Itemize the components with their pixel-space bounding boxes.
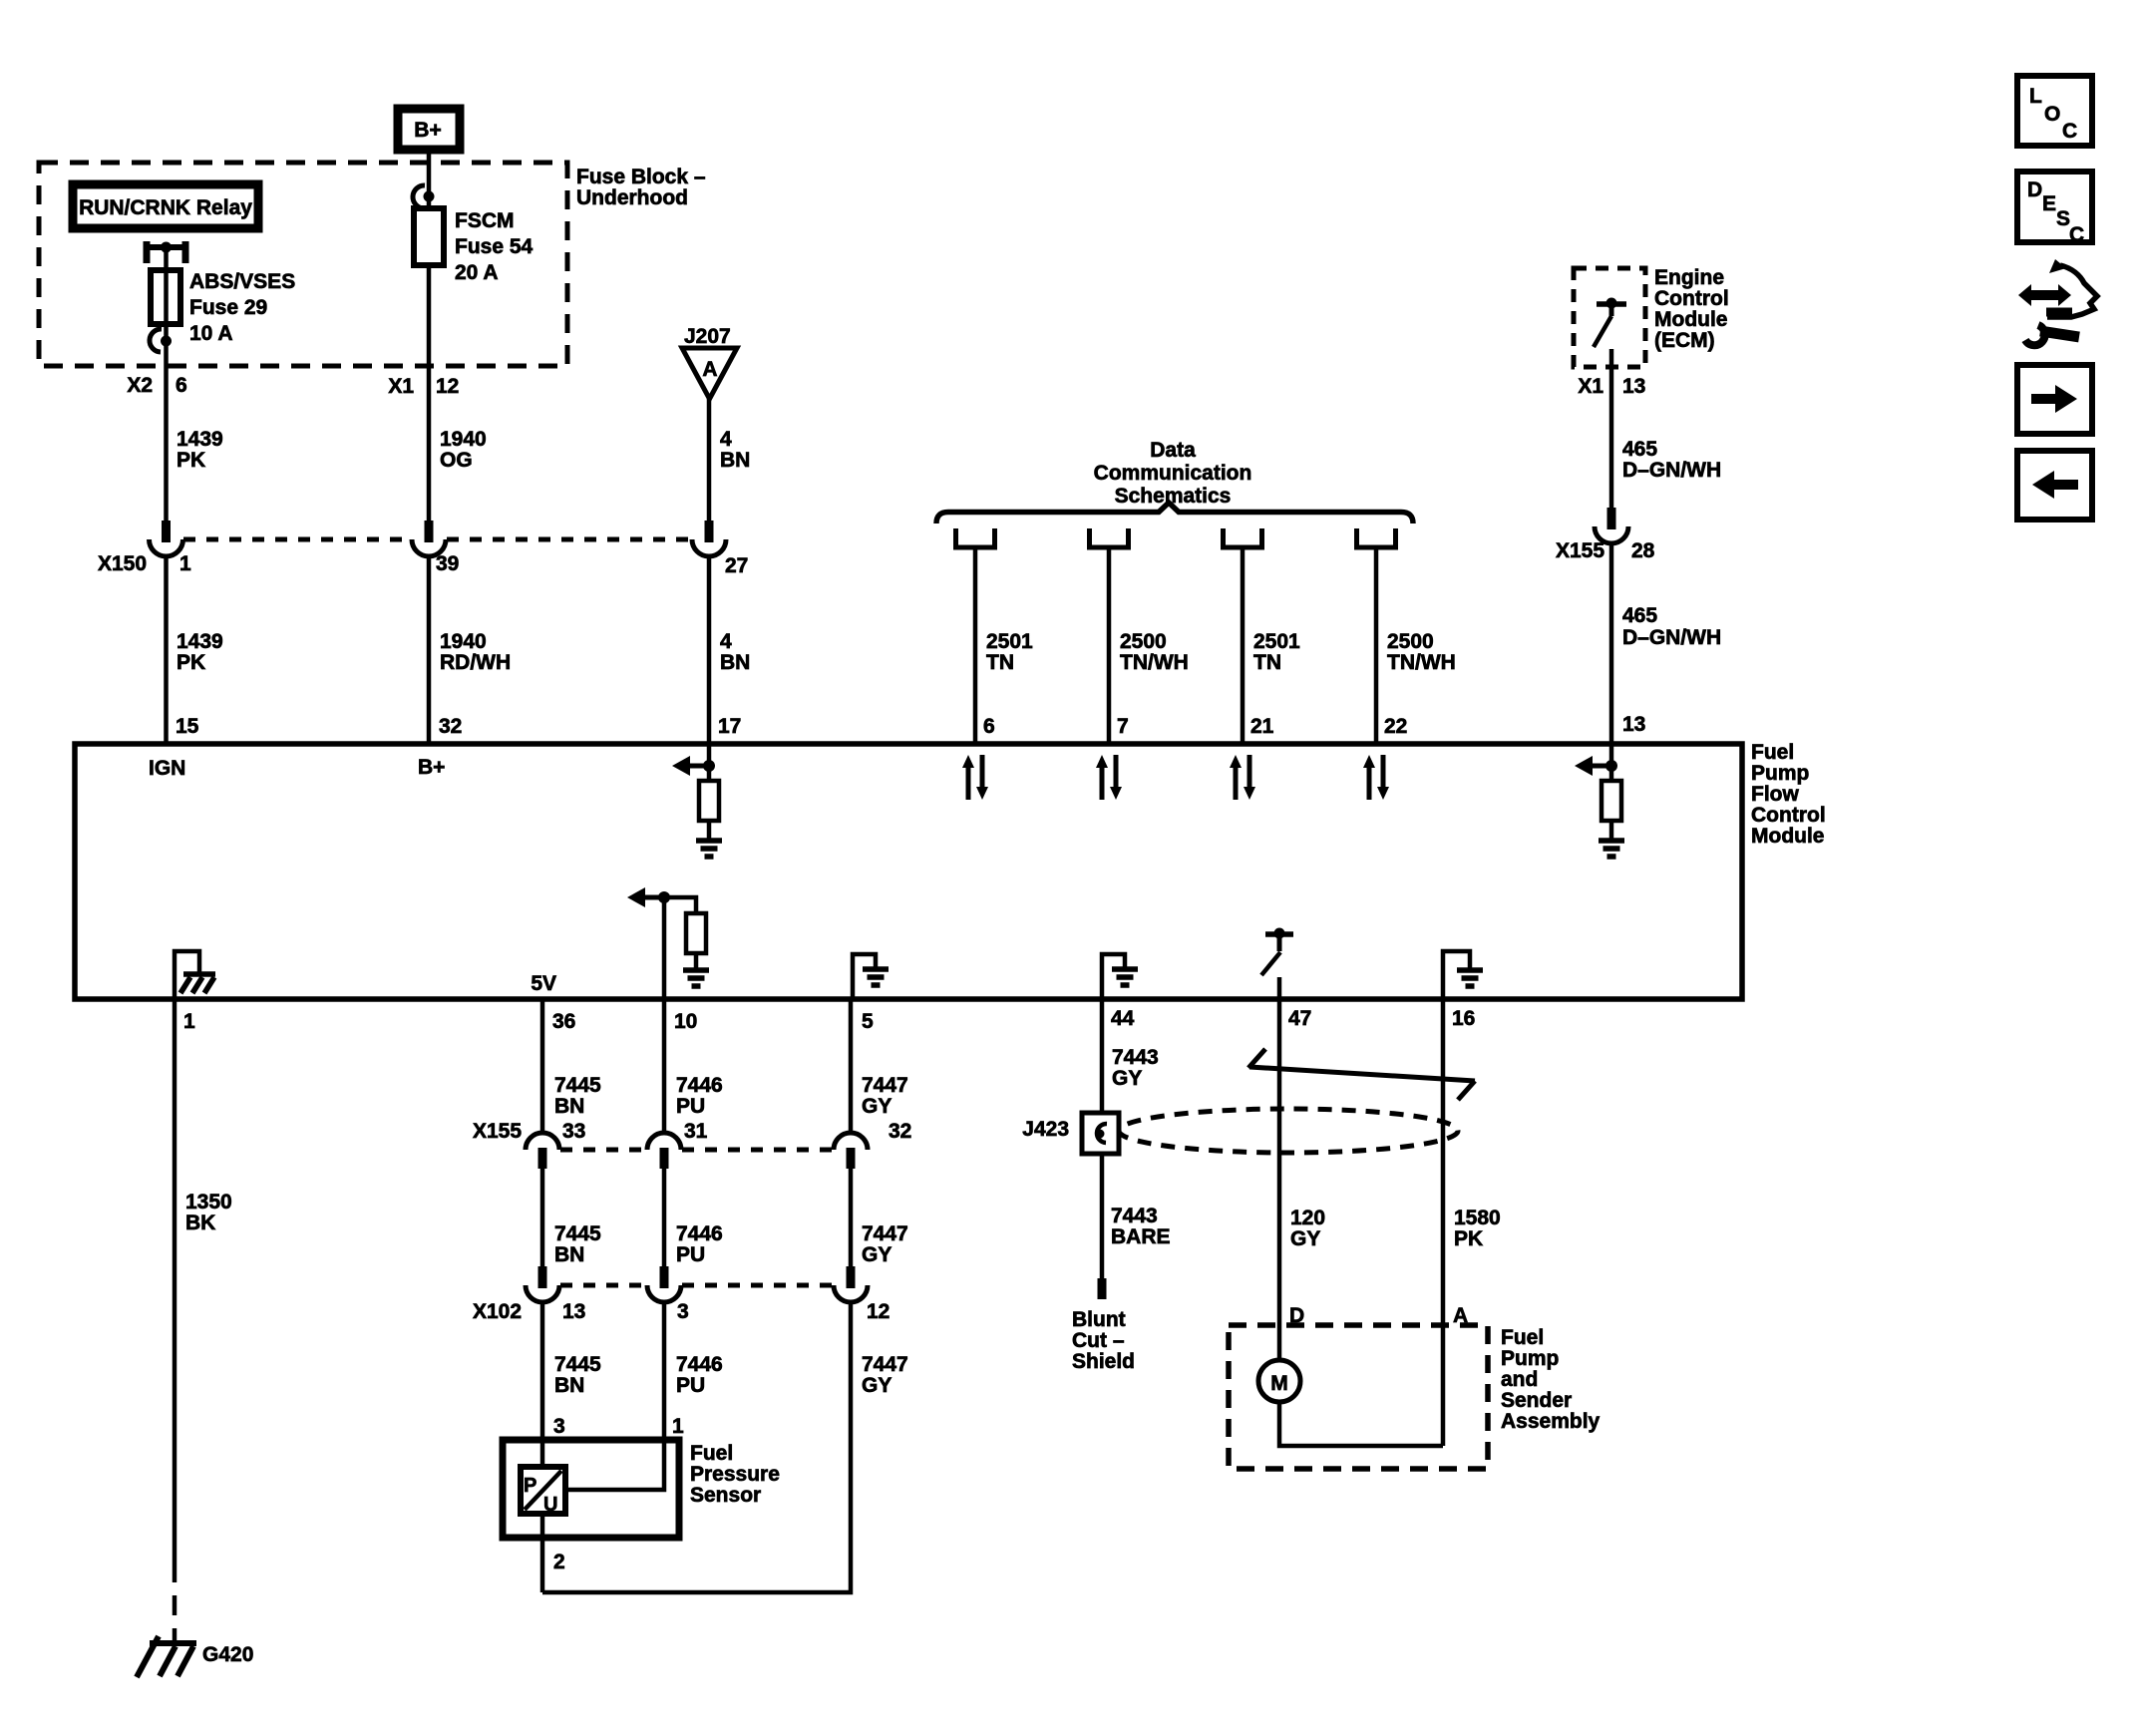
svg-text:7445: 7445 bbox=[554, 1353, 601, 1376]
svg-text:PU: PU bbox=[676, 1243, 705, 1266]
wire relay through fuse 29 to X150 bbox=[164, 247, 169, 522]
svg-text:RD/WH: RD/WH bbox=[440, 651, 511, 674]
svg-text:7: 7 bbox=[1117, 715, 1129, 738]
ECM dashed box bbox=[1574, 268, 1645, 367]
svg-text:Flow: Flow bbox=[1751, 783, 1799, 806]
wire pin 1 to G420 (1350 BK) bbox=[173, 999, 178, 1643]
svg-text:GY: GY bbox=[1290, 1227, 1320, 1250]
label ABS/VSES Fuse 29 10 A bbox=[189, 270, 295, 345]
wire from B+ down to fuse 54 bbox=[427, 154, 432, 208]
label 7447 GY (lower) bbox=[862, 1353, 908, 1397]
svg-text:P: P bbox=[524, 1475, 536, 1497]
svg-text:C: C bbox=[2062, 120, 2077, 143]
svg-text:Control: Control bbox=[1751, 804, 1826, 827]
wire X155-32 to X102-12 (7447 GY) bbox=[849, 1169, 854, 1270]
Fuse Block - Underhood dashed box bbox=[39, 163, 567, 366]
icon back arrow button bbox=[2017, 451, 2092, 520]
label 1439 PK (above X150) bbox=[177, 428, 223, 472]
wire motor to sender return bbox=[1279, 1402, 1443, 1446]
label 7446 PU (upper) bbox=[676, 1074, 723, 1118]
data wire 2501 TN pin 21 bbox=[1221, 528, 1300, 744]
label 1439 PK (below X150) bbox=[177, 630, 223, 674]
Fuel Pump Flow Control Module box bbox=[75, 744, 1742, 999]
data wire 2500 TN/WH pin 7 bbox=[1087, 528, 1189, 744]
svg-text:Fuse 29: Fuse 29 bbox=[189, 296, 267, 319]
svg-text:M: M bbox=[1270, 1372, 1288, 1395]
svg-text:D–GN/WH: D–GN/WH bbox=[1622, 626, 1721, 649]
svg-text:1940: 1940 bbox=[440, 630, 487, 653]
twisted-leads arrow bbox=[1248, 1049, 1475, 1100]
connector X155 cavity 32 bbox=[834, 1133, 868, 1169]
label 7447 GY (middle) bbox=[862, 1222, 908, 1266]
label X1 12 bbox=[388, 375, 459, 398]
internal pull-up resistor and ground at pin 13 bbox=[1575, 744, 1624, 857]
svg-text:44: 44 bbox=[1111, 1007, 1135, 1030]
label X1 13 (ECM) bbox=[1578, 375, 1645, 398]
svg-text:X2: X2 bbox=[127, 374, 153, 397]
svg-text:(ECM): (ECM) bbox=[1654, 329, 1715, 352]
svg-text:2501: 2501 bbox=[986, 630, 1033, 653]
wire J423 to blunt cut (7443 BARE) bbox=[1100, 1154, 1105, 1280]
label Fuel Pump Flow Control Module bbox=[1751, 741, 1826, 848]
label Fuel Pressure Sensor bbox=[690, 1442, 780, 1507]
svg-text:13: 13 bbox=[1622, 375, 1645, 398]
svg-text:120: 120 bbox=[1290, 1207, 1325, 1229]
connector X102 cavity 13 bbox=[526, 1266, 559, 1302]
svg-text:4: 4 bbox=[720, 428, 732, 451]
connector X155 cavity 31 bbox=[647, 1133, 681, 1169]
wire J207 to X150-27 (4 BN) bbox=[707, 399, 712, 522]
ground G420 chassis symbol bbox=[137, 1636, 196, 1677]
svg-text:PK: PK bbox=[177, 449, 205, 472]
internal data transceiver arrows pin 7 bbox=[1096, 755, 1122, 800]
fuel pump motor M bbox=[1258, 1360, 1300, 1402]
svg-text:1350: 1350 bbox=[185, 1191, 232, 1214]
svg-text:TN: TN bbox=[1253, 651, 1281, 674]
svg-text:36: 36 bbox=[552, 1010, 575, 1033]
svg-text:10: 10 bbox=[674, 1010, 697, 1033]
wire pin 36 to X155-33 (7445 BN) bbox=[540, 999, 545, 1134]
label 7446 PU (middle) bbox=[676, 1222, 723, 1266]
label Fuse Block - Underhood bbox=[576, 166, 706, 209]
svg-text:PU: PU bbox=[676, 1095, 705, 1118]
svg-text:1439: 1439 bbox=[177, 630, 223, 653]
label FSCM Fuse 54 20 A bbox=[455, 209, 534, 284]
svg-text:15: 15 bbox=[176, 715, 199, 738]
label 1940 OG bbox=[440, 428, 487, 472]
svg-text:BN: BN bbox=[720, 651, 750, 674]
svg-text:X102: X102 bbox=[473, 1300, 522, 1323]
svg-text:TN/WH: TN/WH bbox=[1120, 651, 1189, 674]
svg-text:Module: Module bbox=[1654, 308, 1728, 331]
Fuel Pump and Sender Assembly dashed box bbox=[1229, 1325, 1488, 1469]
label 4 BN (below X150) bbox=[720, 630, 750, 674]
svg-text:GY: GY bbox=[862, 1095, 891, 1118]
wire X150-27 to module pin 17 (4 BN) bbox=[707, 555, 712, 744]
icon forward arrow button bbox=[2017, 365, 2092, 434]
svg-text:X1: X1 bbox=[1578, 375, 1603, 398]
icon repair-info hand with double arrow and wrench bbox=[2018, 259, 2097, 345]
label 1940 RD/WH bbox=[440, 630, 511, 674]
blunt cut shield stub bbox=[1098, 1278, 1107, 1299]
internal 5V reference resistor to ground at pin 10 bbox=[627, 887, 709, 997]
data bus brace bbox=[936, 503, 1413, 523]
svg-text:PK: PK bbox=[177, 651, 205, 674]
svg-text:BN: BN bbox=[720, 449, 750, 472]
svg-text:12: 12 bbox=[436, 375, 459, 398]
svg-text:465: 465 bbox=[1622, 438, 1657, 461]
svg-text:Fuel: Fuel bbox=[1501, 1326, 1544, 1349]
svg-text:Sender: Sender bbox=[1501, 1389, 1572, 1412]
relay output terminal with junction bbox=[144, 241, 188, 263]
svg-text:1: 1 bbox=[672, 1415, 684, 1438]
svg-text:28: 28 bbox=[1631, 539, 1655, 562]
fuse F29 (ABS/VSES 10 A) bbox=[151, 270, 180, 324]
label 7445 BN (middle) bbox=[554, 1222, 601, 1266]
svg-text:32: 32 bbox=[439, 715, 462, 738]
svg-text:and: and bbox=[1501, 1368, 1538, 1391]
label X155 28 bbox=[1556, 539, 1655, 562]
svg-text:27: 27 bbox=[725, 554, 748, 577]
connector X150 cavity 27 bbox=[692, 521, 726, 556]
svg-text:B+: B+ bbox=[418, 756, 445, 779]
svg-text:12: 12 bbox=[867, 1300, 890, 1323]
svg-text:Sensor: Sensor bbox=[690, 1484, 761, 1507]
svg-text:G420: G420 bbox=[202, 1643, 253, 1666]
svg-text:10 A: 10 A bbox=[189, 322, 233, 345]
connector X150 cavity 1 bbox=[150, 521, 183, 556]
svg-text:5V: 5V bbox=[531, 972, 556, 995]
wire X150-1 to module pin 15 (1439 PK) bbox=[164, 555, 169, 744]
svg-text:7446: 7446 bbox=[676, 1353, 723, 1376]
svg-text:GY: GY bbox=[1112, 1067, 1142, 1090]
internal chassis ground at pin 1 bbox=[175, 951, 215, 997]
svg-text:GY: GY bbox=[862, 1374, 891, 1397]
svg-text:7446: 7446 bbox=[676, 1074, 723, 1097]
svg-text:Underhood: Underhood bbox=[576, 186, 688, 209]
svg-text:7445: 7445 bbox=[554, 1222, 601, 1245]
internal ground at pin 16 bbox=[1443, 951, 1483, 997]
svg-text:17: 17 bbox=[718, 715, 741, 738]
svg-text:U: U bbox=[543, 1494, 557, 1516]
wire X155-33 to X102-13 (7445 BN) bbox=[540, 1169, 545, 1270]
terminal hook above fuse 54 bbox=[413, 185, 435, 208]
svg-text:5: 5 bbox=[862, 1010, 874, 1033]
svg-text:TN: TN bbox=[986, 651, 1014, 674]
svg-text:GY: GY bbox=[862, 1243, 891, 1266]
svg-text:D–GN/WH: D–GN/WH bbox=[1622, 459, 1721, 482]
internal pull-up resistor and ground at pin 17 bbox=[672, 744, 722, 857]
wire X155-31 to X102-3 (7446 PU) bbox=[662, 1169, 667, 1270]
svg-text:BN: BN bbox=[554, 1374, 584, 1397]
svg-text:X155: X155 bbox=[473, 1120, 522, 1143]
svg-text:7447: 7447 bbox=[862, 1222, 908, 1245]
label 7446 PU (lower) bbox=[676, 1353, 723, 1397]
label Engine Control Module (ECM) bbox=[1654, 266, 1729, 352]
label 465 D-GN/WH (upper) bbox=[1622, 438, 1721, 482]
svg-text:7443: 7443 bbox=[1111, 1205, 1158, 1227]
svg-text:47: 47 bbox=[1288, 1007, 1311, 1030]
svg-text:20 A: 20 A bbox=[455, 261, 499, 284]
label Fuel Pump and Sender Assembly bbox=[1501, 1326, 1601, 1433]
internal data transceiver arrows pin 22 bbox=[1363, 755, 1389, 800]
svg-text:BK: BK bbox=[185, 1212, 215, 1234]
svg-text:7447: 7447 bbox=[862, 1353, 908, 1376]
svg-text:Shield: Shield bbox=[1072, 1350, 1135, 1373]
Fuel Pressure Sensor box bbox=[503, 1440, 679, 1538]
svg-text:S: S bbox=[2056, 207, 2070, 230]
svg-text:L: L bbox=[2029, 85, 2042, 108]
svg-text:Blunt: Blunt bbox=[1072, 1308, 1126, 1331]
svg-text:13: 13 bbox=[1622, 713, 1645, 736]
svg-text:PK: PK bbox=[1454, 1227, 1483, 1250]
svg-text:J423: J423 bbox=[1022, 1118, 1069, 1141]
svg-text:7445: 7445 bbox=[554, 1074, 601, 1097]
wire pin 5 to X155-32 (7447 GY) bbox=[849, 999, 854, 1134]
svg-text:2501: 2501 bbox=[1253, 630, 1300, 653]
label 7447 GY (upper) bbox=[862, 1074, 908, 1118]
svg-text:465: 465 bbox=[1622, 604, 1657, 627]
label 7443 GY bbox=[1112, 1046, 1159, 1090]
svg-text:7443: 7443 bbox=[1112, 1046, 1159, 1069]
label 465 D-GN/WH (lower) bbox=[1622, 604, 1721, 649]
X102 dashed inline-connector line bbox=[560, 1283, 833, 1288]
wire sensor pin 2 bbox=[540, 1514, 545, 1592]
wire X102-3 to sensor pin 1 (7446 PU) bbox=[565, 1301, 664, 1490]
svg-text:6: 6 bbox=[176, 374, 187, 397]
svg-text:3: 3 bbox=[677, 1300, 689, 1323]
label 120 GY bbox=[1290, 1207, 1325, 1250]
svg-text:C: C bbox=[2069, 223, 2084, 246]
svg-text:1: 1 bbox=[179, 552, 191, 575]
connector X155 cavity 33 bbox=[526, 1133, 559, 1169]
label X150 1 bbox=[98, 552, 191, 575]
label 7445 BN (upper) bbox=[554, 1074, 601, 1118]
svg-text:7447: 7447 bbox=[862, 1074, 908, 1097]
svg-text:1940: 1940 bbox=[440, 428, 487, 451]
svg-text:Engine: Engine bbox=[1654, 266, 1724, 289]
internal switch at pin 47 bbox=[1261, 928, 1293, 998]
svg-text:PU: PU bbox=[676, 1374, 705, 1397]
svg-text:Pressure: Pressure bbox=[690, 1463, 780, 1486]
svg-text:Fuse 54: Fuse 54 bbox=[455, 235, 534, 258]
svg-text:1580: 1580 bbox=[1454, 1207, 1501, 1229]
B+ power terminal box bbox=[398, 109, 460, 150]
internal ground at pin 44 bbox=[1102, 954, 1138, 997]
svg-text:Assembly: Assembly bbox=[1501, 1410, 1601, 1433]
shield dashed ellipse bbox=[1119, 1109, 1458, 1153]
svg-text:E: E bbox=[2042, 192, 2056, 215]
internal data transceiver arrows pin 6 bbox=[962, 755, 988, 800]
data wire 2501 TN pin 6 bbox=[953, 528, 1033, 744]
svg-text:33: 33 bbox=[562, 1120, 585, 1143]
label 4 BN (above X150) bbox=[720, 428, 750, 472]
svg-text:Cut –: Cut – bbox=[1072, 1329, 1125, 1352]
svg-text:6: 6 bbox=[983, 715, 995, 738]
svg-text:2500: 2500 bbox=[1387, 630, 1434, 653]
label 7443 BARE bbox=[1111, 1205, 1171, 1248]
svg-text:FSCM: FSCM bbox=[455, 209, 515, 232]
svg-text:X155: X155 bbox=[1556, 539, 1604, 562]
svg-text:BARE: BARE bbox=[1111, 1225, 1171, 1248]
svg-text:1: 1 bbox=[183, 1010, 195, 1033]
connector X150 cavity 39 bbox=[412, 521, 446, 556]
connector X155 cavity 28 bbox=[1595, 508, 1628, 543]
svg-text:4: 4 bbox=[720, 630, 732, 653]
label 1580 PK bbox=[1454, 1207, 1501, 1250]
relay RUN/CRNK Relay bbox=[73, 184, 258, 228]
wire fuse 54 to X150 (1940 OG) bbox=[427, 265, 432, 522]
wire X155-28 to module pin 13 (465 D-GN/WH) bbox=[1609, 542, 1614, 744]
svg-text:O: O bbox=[2044, 103, 2060, 126]
data wire 2500 TN/WH pin 22 bbox=[1354, 528, 1456, 744]
svg-text:TN/WH: TN/WH bbox=[1387, 651, 1456, 674]
svg-text:RUN/CRNK Relay: RUN/CRNK Relay bbox=[79, 196, 252, 219]
svg-text:BN: BN bbox=[554, 1243, 584, 1266]
svg-text:Control: Control bbox=[1654, 287, 1729, 310]
X150 dashed inline-connector line bbox=[183, 537, 691, 542]
svg-text:IGN: IGN bbox=[149, 757, 185, 780]
svg-text:Fuel: Fuel bbox=[690, 1442, 733, 1465]
svg-text:Pump: Pump bbox=[1751, 762, 1809, 785]
connector X102 cavity 12 bbox=[834, 1266, 868, 1302]
wire pin 47 to fuel pump motor (120 GY) bbox=[1277, 999, 1282, 1360]
svg-text:X150: X150 bbox=[98, 552, 147, 575]
X155 dashed inline-connector line bbox=[560, 1148, 833, 1153]
label Data Communication Schematics bbox=[1094, 439, 1252, 508]
svg-text:7446: 7446 bbox=[676, 1222, 723, 1245]
label 1350 BK bbox=[185, 1191, 232, 1234]
svg-text:Pump: Pump bbox=[1501, 1347, 1559, 1370]
pressure transducer P/U symbol bbox=[521, 1467, 565, 1516]
svg-text:Fuel: Fuel bbox=[1751, 741, 1794, 764]
label X2 6 bbox=[127, 374, 186, 397]
splice J423 bbox=[1082, 1113, 1119, 1154]
internal data transceiver arrows pin 21 bbox=[1230, 755, 1255, 800]
label 7445 BN (lower) bbox=[554, 1353, 601, 1397]
svg-text:J207: J207 bbox=[684, 325, 731, 348]
svg-text:B+: B+ bbox=[414, 119, 441, 142]
svg-text:21: 21 bbox=[1250, 715, 1274, 738]
svg-text:31: 31 bbox=[684, 1120, 708, 1143]
svg-text:X1: X1 bbox=[388, 375, 414, 398]
fuse F54 (FSCM 20 A) bbox=[414, 208, 444, 265]
svg-text:13: 13 bbox=[562, 1300, 585, 1323]
terminal hook below fuse 29 bbox=[150, 329, 172, 352]
svg-text:22: 22 bbox=[1384, 715, 1407, 738]
wire pin 16 to sender (1580 PK) bbox=[1441, 999, 1446, 1446]
connector X102 cavity 3 bbox=[647, 1266, 681, 1302]
svg-text:3: 3 bbox=[553, 1415, 565, 1438]
label Blunt Cut - Shield bbox=[1072, 1308, 1135, 1373]
wire X102-12 to sensor pin 2 (7447 GY) bbox=[542, 1301, 851, 1592]
wire pin 10 to X155-31 (7446 PU) bbox=[662, 999, 667, 1134]
ECM internal switch bbox=[1594, 298, 1626, 348]
wire pin 44 to J423 (7443 GY) bbox=[1100, 999, 1105, 1113]
svg-text:Communication: Communication bbox=[1094, 462, 1252, 485]
internal ground at pin 5 bbox=[853, 954, 889, 997]
icon DESC button bbox=[2017, 172, 2092, 246]
wire X102-13 to sensor pin 3 (7445 BN) bbox=[540, 1301, 545, 1470]
svg-text:1439: 1439 bbox=[177, 428, 223, 451]
wire ECM to X155-28 (465 D-GN/WH) bbox=[1609, 349, 1614, 510]
svg-text:D: D bbox=[2027, 178, 2042, 201]
svg-text:BN: BN bbox=[554, 1095, 584, 1118]
svg-text:OG: OG bbox=[440, 449, 473, 472]
svg-text:ABS/VSES: ABS/VSES bbox=[189, 270, 295, 293]
svg-text:A: A bbox=[702, 358, 717, 381]
svg-text:Fuse Block –: Fuse Block – bbox=[576, 166, 706, 188]
icon LOC button bbox=[2017, 76, 2092, 146]
wire X150-39 to module pin 32 (1940 RD/WH) bbox=[427, 555, 432, 744]
svg-text:Module: Module bbox=[1751, 825, 1825, 848]
svg-text:16: 16 bbox=[1452, 1007, 1475, 1030]
svg-text:2: 2 bbox=[553, 1551, 565, 1573]
svg-text:2500: 2500 bbox=[1120, 630, 1167, 653]
svg-text:32: 32 bbox=[889, 1120, 911, 1143]
splice J207 triangle bbox=[682, 348, 737, 399]
svg-text:Data: Data bbox=[1150, 439, 1196, 462]
svg-text:39: 39 bbox=[436, 552, 459, 575]
